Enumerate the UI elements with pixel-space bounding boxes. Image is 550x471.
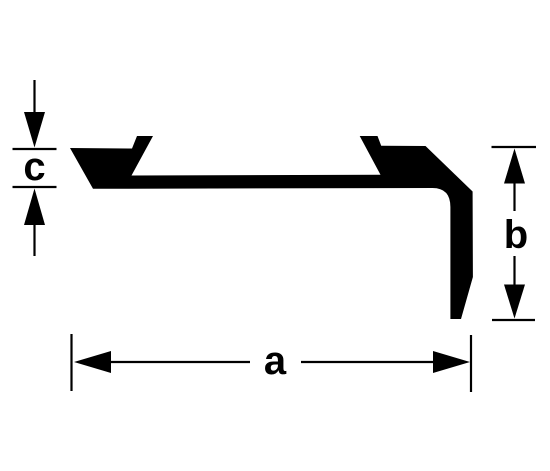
svg-text:b: b (504, 213, 528, 257)
dimension c : vertical line upper part (33, 80, 35, 118)
dimension b : vertical line lower part (513, 256, 515, 287)
dimension a : left tick (70, 334, 72, 391)
dimension a : line right segment (301, 361, 435, 363)
profile cross-section (black extrusion shape) (70, 136, 473, 319)
dimension c : top tick (13, 148, 57, 150)
dimension b : up arrow (504, 149, 525, 184)
dimension c : down arrow (24, 112, 45, 148)
dimension c : up arrow (24, 189, 45, 226)
svg-text:a: a (264, 339, 287, 383)
dimension b : top tick (492, 146, 537, 148)
dimension b : down arrow (504, 285, 525, 319)
dimension b : vertical line upper part (513, 182, 515, 211)
dimension a : line left segment (109, 361, 250, 363)
dimension a : right tick (470, 335, 472, 392)
svg-text:c: c (23, 145, 45, 189)
dimension c : bottom tick (13, 186, 57, 188)
dimension a : right arrow (433, 351, 470, 373)
dimension c : vertical line lower part (33, 223, 35, 256)
dimension b : bottom tick (492, 319, 535, 321)
dimension a : left arrow (74, 351, 111, 373)
